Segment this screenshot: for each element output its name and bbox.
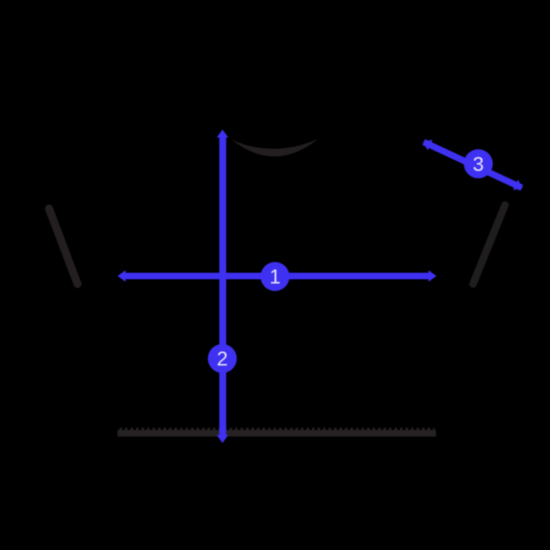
svg-text:3: 3 (473, 154, 484, 176)
svg-text:2: 2 (217, 349, 228, 371)
svg-text:1: 1 (269, 267, 280, 289)
